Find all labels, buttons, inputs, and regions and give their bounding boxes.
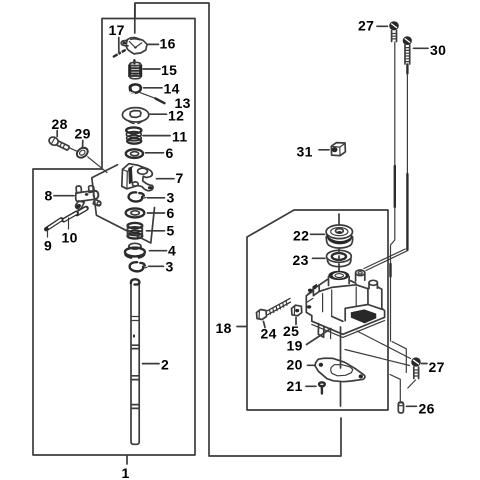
label 20 bbox=[287, 357, 316, 373]
label 12 bbox=[150, 108, 184, 124]
svg-text:3: 3 bbox=[166, 259, 174, 275]
label 17 bbox=[109, 22, 125, 52]
washer 6 (lower) bbox=[126, 208, 145, 217]
wire rod A bbox=[390, 42, 406, 402]
washer 23 bbox=[327, 250, 352, 266]
label 3 (lower) bbox=[149, 259, 174, 275]
screw 27 (top) bbox=[389, 21, 399, 41]
collar 14 bbox=[129, 83, 143, 94]
label 6 (upper) bbox=[146, 145, 174, 161]
spring 11 bbox=[126, 127, 141, 143]
bracket 7 bbox=[122, 164, 153, 191]
wire rod B bbox=[364, 74, 408, 271]
label 23 bbox=[293, 252, 326, 268]
shaft 2 bbox=[131, 279, 140, 444]
group box 1 (left assembly enclosure) bbox=[33, 19, 195, 456]
wire top bracket to right-bottom assembly axis bbox=[135, 3, 341, 456]
svg-text:16: 16 bbox=[160, 36, 176, 52]
wire 23-housing axis bbox=[338, 249, 340, 272]
svg-text:9: 9 bbox=[44, 238, 52, 254]
label 13 bbox=[175, 95, 191, 111]
label 3 (upper) bbox=[148, 190, 175, 206]
label 1 bbox=[122, 456, 130, 480]
svg-text:5: 5 bbox=[167, 223, 175, 239]
washer 29 bbox=[75, 146, 90, 160]
label 14 bbox=[144, 81, 180, 97]
svg-text:24: 24 bbox=[261, 326, 277, 342]
wire leader 29 to plate bbox=[88, 157, 107, 173]
bolt 28 bbox=[48, 136, 77, 152]
pulley 22 bbox=[326, 225, 353, 248]
bushing 4 bbox=[125, 243, 146, 257]
svg-text:30: 30 bbox=[430, 42, 446, 58]
wire pulley axis bbox=[338, 214, 340, 229]
pin 13 w/ leader bbox=[140, 93, 164, 104]
svg-text:23: 23 bbox=[293, 252, 309, 268]
svg-text:31: 31 bbox=[297, 144, 313, 160]
pin 17 bbox=[114, 50, 125, 56]
svg-text:7: 7 bbox=[176, 170, 184, 186]
group box 18 (right assembly enclosure) bbox=[247, 210, 388, 410]
svg-text:17: 17 bbox=[109, 22, 125, 38]
washer 6 (upper) bbox=[126, 149, 143, 158]
svg-text:27: 27 bbox=[429, 359, 445, 375]
label 8 bbox=[45, 188, 75, 204]
label 11 bbox=[143, 129, 188, 145]
svg-text:4: 4 bbox=[168, 243, 176, 259]
label 4 bbox=[150, 243, 177, 259]
svg-text:15: 15 bbox=[161, 62, 177, 78]
c-clip 3 (lower) bbox=[130, 262, 147, 271]
pin 10 bbox=[64, 208, 87, 229]
svg-text:27: 27 bbox=[358, 18, 374, 34]
pin 9 bbox=[45, 219, 62, 237]
label 10 bbox=[62, 230, 78, 246]
spring 15 bbox=[130, 60, 141, 79]
label 16 bbox=[148, 36, 176, 52]
label 9 bbox=[44, 238, 52, 254]
plate (bracket 7 mounting plate) bbox=[92, 165, 155, 243]
gasket 20 bbox=[315, 358, 365, 382]
sleeve 26 bbox=[398, 402, 403, 413]
svg-text:22: 22 bbox=[293, 228, 309, 244]
svg-text:19: 19 bbox=[287, 338, 303, 354]
svg-text:12: 12 bbox=[168, 108, 184, 124]
label 21 bbox=[287, 378, 317, 394]
bolt 30 bbox=[403, 36, 412, 73]
spring 5 bbox=[127, 223, 142, 239]
svg-text:6: 6 bbox=[166, 145, 174, 161]
label 24 bbox=[261, 322, 277, 342]
clamp 8 bbox=[75, 186, 101, 210]
housing 19 bbox=[306, 270, 384, 339]
label 18 bbox=[216, 320, 247, 336]
wire leader to screw 27 right bbox=[357, 331, 411, 359]
svg-text:29: 29 bbox=[75, 126, 91, 142]
label 30 bbox=[414, 42, 447, 58]
label 7 bbox=[157, 170, 184, 186]
nut 25 bbox=[292, 305, 302, 316]
c-clip 3 (upper) bbox=[129, 192, 146, 201]
label 25 bbox=[283, 318, 299, 340]
bolt 24 bbox=[257, 298, 292, 319]
label 19 bbox=[287, 329, 332, 354]
label 15 bbox=[143, 62, 177, 78]
label 5 bbox=[147, 223, 175, 239]
svg-text:21: 21 bbox=[287, 378, 303, 394]
screw 21 bbox=[319, 382, 325, 393]
label 6 (lower) bbox=[148, 205, 175, 221]
svg-text:6: 6 bbox=[167, 205, 175, 221]
block 16 bbox=[121, 38, 147, 54]
label 31 bbox=[297, 144, 330, 160]
screw 27 (right) bbox=[408, 357, 421, 388]
label 29 bbox=[75, 126, 91, 149]
svg-text:26: 26 bbox=[419, 401, 435, 417]
svg-text:10: 10 bbox=[62, 230, 78, 246]
label 27 (top) bbox=[358, 18, 388, 34]
svg-text:11: 11 bbox=[172, 129, 188, 145]
svg-text:3: 3 bbox=[167, 190, 175, 206]
label 22 bbox=[293, 228, 325, 244]
label 28 bbox=[52, 116, 68, 137]
svg-text:20: 20 bbox=[287, 357, 303, 373]
svg-text:18: 18 bbox=[216, 320, 232, 336]
label 2 bbox=[143, 357, 170, 373]
svg-text:2: 2 bbox=[161, 357, 169, 373]
svg-text:28: 28 bbox=[52, 116, 68, 132]
svg-text:8: 8 bbox=[45, 188, 53, 204]
nut 31 bbox=[331, 143, 345, 156]
label 27 (right) bbox=[422, 359, 445, 375]
wire axis into part 16 bbox=[134, 4, 136, 34]
label 26 bbox=[407, 401, 435, 417]
svg-text:1: 1 bbox=[122, 465, 130, 480]
disc 12 bbox=[122, 108, 148, 124]
wire housing-gasket axis bbox=[340, 327, 342, 406]
